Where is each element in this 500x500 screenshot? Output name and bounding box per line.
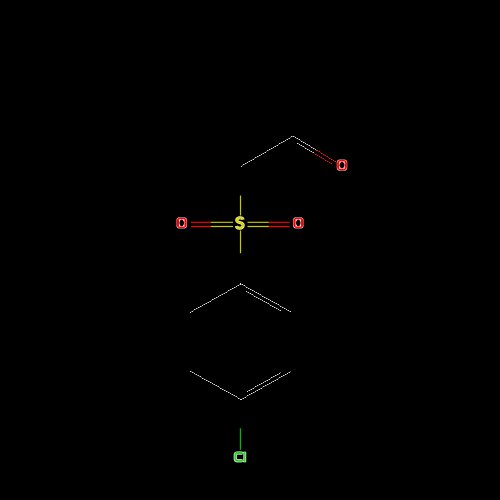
wire: bond C6-Cl chlorine half (solid green vertical)	[239, 428, 241, 450]
wire: bond S=O3 lower line sulfur half (yellow)	[248, 226, 269, 228]
wire: ring edge C6-C5 bottom-right (stipple)	[241, 371, 291, 400]
wire: bond S=O2 lower line oxygen half (red)	[191, 226, 211, 228]
wire: ring edge C6-C7 bottom-left (stipple)	[190, 371, 241, 400]
wire: bond S=O3 lower line oxygen half (red)	[269, 226, 290, 228]
wire: bond C1=O1 outer line (white carbon half / red oxygen half)	[293, 136, 336, 162]
atom label O1 ketone oxygen (red)	[337, 160, 347, 171]
atom label Cl chlorine (green)	[235, 452, 246, 463]
wire: ring double bond inner line bottom-right (stipple)	[247, 372, 281, 392]
wire: bond C2-S sulfur half (solid yellow vertical)	[240, 196, 242, 216]
atom label O3 right sulfonyl oxygen (red)	[293, 217, 303, 228]
wire: bond C1=O1 inner line (white carbon half / red oxygen half)	[297, 143, 332, 164]
wire: bond S=O2 upper line sulfur half (yellow)	[211, 221, 233, 223]
wire: bond S-C3 sulfur half (solid yellow vertical)	[240, 231, 242, 254]
wire: ring edge C3-C4 top-right (stipple)	[240, 283, 291, 312]
wire: ring edge C3-C8 top-left (stipple)	[190, 284, 241, 313]
wire: bond S=O2 lower line sulfur half (yellow)	[211, 226, 233, 228]
wire: ring double bond inner line top-right (stipple)	[246, 291, 281, 311]
wire: bond C2-C1 single (stippled white diagonal)	[241, 136, 293, 167]
wire: bond S=O3 upper line oxygen half (red)	[269, 221, 290, 223]
atom label S sulfur (yellow)	[237, 218, 244, 228]
wire: bond S=O2 upper line oxygen half (red)	[191, 221, 211, 223]
atom label O2 left sulfonyl oxygen (red)	[177, 217, 187, 228]
wire: bond S=O3 upper line sulfur half (yellow)	[248, 221, 269, 223]
